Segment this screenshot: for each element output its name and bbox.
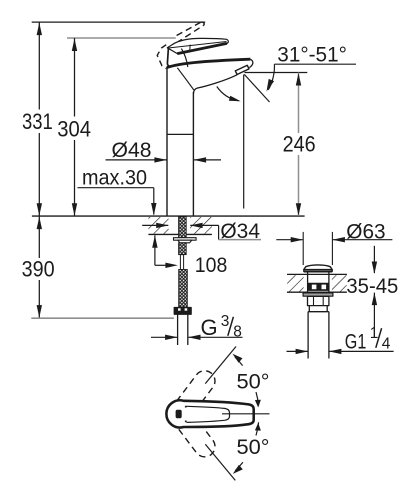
390 bottom extension line (gray) [31,317,174,319]
304 arrow up [72,39,77,52]
G3/8 left tail [151,336,177,338]
Ø34 underline (gray) [219,239,261,241]
column right edge [192,92,194,216]
drain counter bottom line [287,291,347,293]
dashed lever back (raised position) [157,45,166,69]
G3/8 underline [188,336,242,338]
svg-text:8: 8 [233,324,242,341]
Ø34 left tail [142,224,168,226]
drain countertop hatched section left [287,275,303,291]
svg-text:331: 331 [22,109,53,134]
108 leader vertical [154,235,156,265]
svg-text:3: 3 [221,313,230,330]
drain body sides in counter [308,273,329,293]
lever grip edge line [189,45,192,53]
331 dimension line lower [38,133,40,216]
spout top thick edge [167,59,250,67]
390 dimension line lower [38,280,40,318]
Ø63 dim line right part [333,239,393,241]
spray angle arrowhead [229,96,241,102]
countertop hatched section left of faucet hole [148,217,168,234]
upper sweep arc a [235,357,243,366]
drain counter top line [287,273,347,275]
lower 50° boundary line [205,444,235,480]
svg-text:31°-51°: 31°-51° [277,42,347,66]
108 arrow right [165,263,178,268]
dashed raised lever lower edge [176,25,203,43]
331 dimension line upper [38,22,40,109]
Ø63 dim line left part [276,239,303,241]
hose crimp fitting [174,308,191,315]
hose thin neck [180,255,183,270]
108 arrow up [152,235,157,248]
svg-text:Ø63: Ø63 [346,219,385,243]
lower arc arrowhead at axis [255,423,261,431]
G1 1/4 underline [329,350,394,352]
svg-text:50°: 50° [237,435,270,459]
braided flexible hose [179,270,188,308]
mounting cone nut [178,240,192,243]
35-45 lower leader [373,293,375,329]
spray angle arc [217,87,239,101]
upper sweep arc b [256,392,259,405]
handle dot marker [176,410,181,417]
Ø63 left extension line [302,232,304,265]
lower sweep arc a [235,462,243,470]
390 arrow down [37,305,42,318]
max.30 underline [78,187,154,189]
Ø34 arrow left [190,223,203,228]
35-45 arrow down [372,262,377,275]
390 arrow up [37,217,42,230]
aerator slab [235,65,249,74]
Ø63 arrow right [291,237,304,242]
threaded shank through countertop [179,217,187,238]
Ø48 arrow left [194,157,207,162]
246 dimension line upper (gray) [298,73,300,134]
246 dimension line lower (gray) [298,155,300,216]
handle inner contour [187,406,230,422]
G1 1/4 arrow left [329,349,342,354]
drain overflow band [309,283,329,290]
lever handle blade [167,38,228,53]
drain dome cap [304,265,332,272]
upper arc arrowhead at line [233,354,243,363]
lever underside thick edge [177,43,227,53]
svg-text:1: 1 [370,325,379,342]
svg-text:246: 246 [283,132,316,157]
108 leader horizontal [155,264,166,266]
body fillet curve [177,68,194,90]
spout underside curve [194,75,238,94]
cartridge housing left edge [167,48,170,66]
handle top view outline [166,400,253,427]
upper 50° boundary line [205,347,236,384]
Ø34 right tail [190,224,218,226]
svg-text:108: 108 [195,253,228,277]
countertop surface line [32,215,305,217]
Ø63 arrow left [332,237,345,242]
drain cap brim line [304,268,332,270]
G3/8 arrow left [188,335,201,340]
246 arrow down [296,203,301,216]
svg-text:304: 304 [57,116,91,141]
35-45 upper leader [373,246,375,273]
cartridge neck curve [181,49,187,67]
max.30 leader drop [153,188,155,215]
Ø34 arrow right [156,223,169,228]
aerator vertical reference line [243,75,245,209]
Ø48 arrow right [154,157,167,162]
G1 1/4 arrow right [296,349,309,354]
drain hex nut upper [308,296,329,305]
svg-text:Ø48: Ø48 [112,138,152,162]
390 dimension line upper [38,216,40,258]
countertop hatched section right of faucet hole [190,217,212,234]
svg-text:35-45: 35-45 [346,274,398,298]
31°-51° underline [274,63,356,65]
331 top extension line [32,21,206,23]
svg-text:50°: 50° [237,369,270,393]
304 arrow down [72,203,77,216]
31-51 leader arrowhead [267,79,275,92]
handle axis line [222,413,270,415]
mounting washer plate [174,238,197,241]
svg-text:max.30: max.30 [82,167,147,190]
G1 1/4 fraction slash [376,328,382,348]
lower arc arrowhead at line [233,465,243,474]
drain tailpipe left edge [307,312,309,359]
spout nose curve [249,59,252,67]
svg-text:Ø34: Ø34 [220,219,260,243]
G1 1/4 left tail [287,350,308,352]
Ø48 underline / left tail [106,159,167,161]
Ø48 right tail [194,159,221,161]
G3/8 arrow right [165,335,178,340]
Ø34 leader drop [218,225,220,239]
331 arrow up [37,23,42,35]
304 dimension line lower [74,140,76,216]
G3/8 tube left edge [177,314,179,345]
drain tailpipe top line [308,311,329,313]
column joint line [167,133,193,135]
column left edge [166,67,168,216]
246 top extension line [244,72,307,74]
hex nut facet right [322,296,324,305]
246 arrow up [296,73,301,86]
svg-text:G1: G1 [345,331,367,354]
35-45 arrow up [372,293,377,306]
drain tailpipe right edge [328,312,330,359]
upper arc arrowhead at axis [255,400,261,408]
dashed raised lever upper edge [177,22,202,36]
G3/8 tube right edge [187,314,189,345]
304 top extension line (gray) [67,37,176,39]
drain flange washer (gray) [303,293,333,296]
aerator angled spray line [244,74,269,102]
G3/8 fraction slash [228,317,234,336]
31-51 leader arc [268,64,274,90]
304 dimension line upper [74,38,76,117]
svg-text:G: G [201,315,218,340]
svg-text:4: 4 [382,335,391,352]
drain cap underside thick line [304,270,332,272]
handle pivot dots [185,406,187,408]
drain countertop hatched section right [332,275,347,291]
dashed handle rotated down 50 deg [177,414,220,461]
max.30 arrow down [151,203,156,216]
svg-text:390: 390 [22,256,55,281]
lever top face inner edge [168,42,226,49]
lower sweep arc b [256,422,259,435]
331 arrow down [37,203,42,216]
hex nut facet left [313,296,315,305]
dashed handle rotated up 50 deg [177,367,220,414]
Ø63 right extension line [331,232,333,265]
drain nut lower ring [309,306,327,312]
dashed raised lever nose cap [201,22,204,25]
threaded shank below flange [179,243,187,255]
countertop underside line [148,233,212,235]
